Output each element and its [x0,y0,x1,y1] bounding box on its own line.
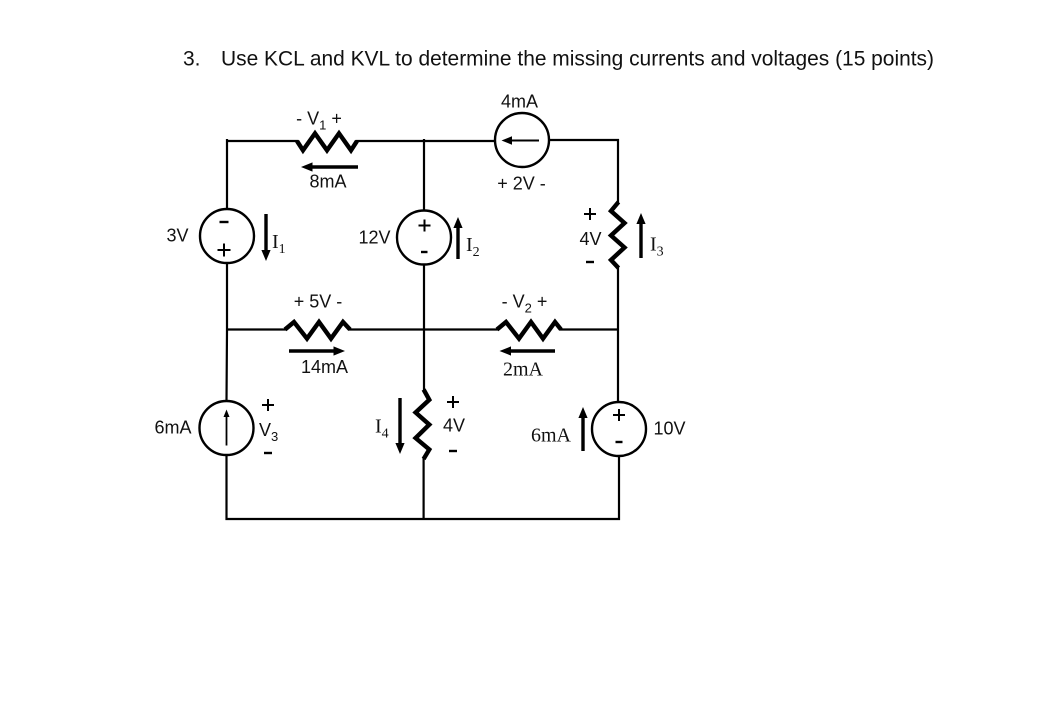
polarity plus inside 3V source [218,244,231,257]
wire: top rail, left corner to resistor V1 [227,139,298,209]
svg-text:12V: 12V [358,228,390,248]
wire: center rail bottom segment [423,458,425,520]
current arrow I1 (pointing down, right of 3V source) [261,214,270,261]
polarity plus above right 4V resistor [584,208,596,220]
svg-text:I3: I3 [650,234,664,260]
current arrow 2mA (pointing left, under resistor V2) [500,346,556,355]
svg-text:4mA: 4mA [501,92,538,112]
arrow inside 4mA source (pointing left) [502,136,540,144]
polarity minus inside 3V source [220,221,229,223]
current arrow 8mA (pointing left, under resistor V1) [301,162,358,171]
svg-text:6mA: 6mA [154,418,191,438]
svg-text:V3: V3 [259,420,278,444]
polarity minus below right 4V resistor [586,261,594,263]
resistor 5V (middle-left horizontal) [285,322,350,339]
wire: center rail upper segment [423,139,425,210]
polarity minus right of 6mA source [264,452,272,454]
current source IS1 4mA (circle) [495,113,549,167]
wire: center rail between 12V source and middle rail [423,264,425,330]
polarity plus right of bottom 4V resistor [447,396,459,408]
resistor V2 (middle-right horizontal) [497,322,561,339]
wire: middle rail left segment [227,328,286,330]
svg-text:14mA: 14mA [301,357,348,377]
wire: left rail between 3V source and 6mA source [225,263,228,401]
voltage source VS2 12V (circle) [397,211,451,265]
svg-text:I2: I2 [466,234,480,260]
wire: middle rail center segment [349,328,498,330]
wire: top rail, 4mA source to top-right corner [549,139,619,141]
arrow inside 6mA source (thin, pointing up) [224,410,230,446]
current source IS2 6mA (circle) [200,401,254,455]
wire: top rail, resistor V1 to 4mA source [356,140,495,142]
svg-text:8mA: 8mA [309,172,346,192]
wire: right rail bottom + bottom rail [227,455,620,519]
svg-text:+ 2V -: + 2V - [497,174,546,194]
current arrow 6mA (pointing up, left of 10V source) [578,407,587,451]
polarity minus inside 10V source [616,441,623,443]
resistor 4V (right vertical) [611,202,625,268]
resistor 4V (bottom vertical) [416,390,430,460]
wire: center rail below middle rail to 4V resistor [423,329,425,390]
svg-text:2mA: 2mA [503,359,544,381]
svg-text:I1: I1 [272,231,286,257]
svg-text:6mA: 6mA [531,425,572,447]
current arrow 14mA (pointing right, under resistor 5V) [289,346,345,355]
resistor V1 (top horizontal) [297,133,357,150]
polarity minus right of bottom 4V resistor [449,450,457,452]
svg-text:Use KCL and KVL to determine t: Use KCL and KVL to determine the missing… [221,48,934,71]
svg-text:- V2 +: - V2 + [502,292,548,316]
voltage source VS1 3V (circle) [200,209,254,263]
svg-text:- V1 +: - V1 + [296,109,342,133]
svg-text:10V: 10V [653,419,685,439]
current arrow I2 (pointing up, right of 12V source) [453,217,462,259]
svg-text:+ 5V -: + 5V - [294,292,343,312]
wire: right rail between 4V resistor and middle rail [617,267,619,402]
svg-text:I4: I4 [375,416,389,442]
wire: right rail upper segment [617,139,619,203]
current arrow I4 (pointing down, left of bottom 4V resistor) [395,398,404,454]
voltage source VS3 10V (circle) [592,402,646,456]
polarity plus right of 6mA source [262,399,274,411]
polarity minus inside 12V source [421,251,428,253]
svg-text:3V: 3V [166,226,188,246]
polarity plus inside 12V source [419,220,431,232]
svg-text:4V: 4V [579,229,601,249]
title: problem statement [183,48,934,71]
svg-text:4V: 4V [443,416,465,436]
svg-text:3.: 3. [183,48,201,71]
polarity plus inside 10V source [613,409,625,421]
current arrow I3 (pointing up, right of 4V resistor) [636,213,645,258]
wire: middle rail right segment [560,328,619,330]
